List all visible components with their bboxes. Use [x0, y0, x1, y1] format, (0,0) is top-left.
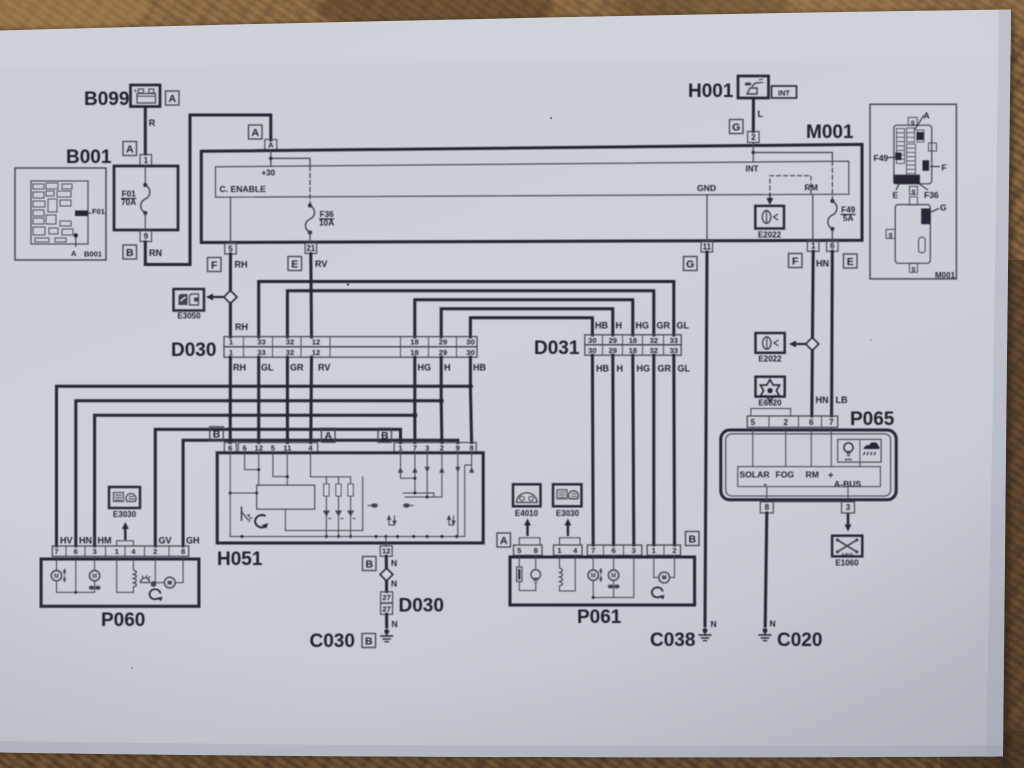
pin 8 of P065	[760, 502, 773, 513]
svg-text:10A: 10A	[319, 219, 334, 228]
wire label RH	[235, 260, 248, 270]
svg-text:B: B	[365, 558, 373, 570]
module M001 label	[806, 122, 854, 143]
svg-text:F: F	[792, 255, 799, 267]
connector A on M001	[265, 140, 277, 151]
svg-text:B: B	[365, 635, 373, 647]
ground C030	[380, 629, 393, 642]
H051 wiper switch symbol	[242, 507, 269, 529]
pin 27 upper	[381, 592, 393, 603]
M001 detail caption	[935, 271, 956, 280]
wire GL D031 to P061 pin 2	[672, 355, 676, 545]
label F49 in detail	[874, 153, 896, 163]
label FOG	[776, 470, 795, 480]
label minus	[764, 480, 767, 491]
switch H001 label	[688, 81, 734, 102]
svg-text:E1060: E1060	[835, 559, 859, 568]
ground C020 label	[777, 630, 822, 651]
wire label HV	[60, 536, 73, 546]
svg-text:3: 3	[425, 443, 429, 452]
fuse F36 10A	[306, 204, 315, 242]
node +30 junction	[269, 151, 273, 167]
wire A-BUS to pin 3	[847, 487, 849, 502]
svg-text:N: N	[392, 619, 398, 629]
H051 control unit box	[257, 485, 315, 509]
M001 detail tab g top	[908, 117, 917, 126]
svg-text:29: 29	[609, 336, 617, 345]
label INT inside M001	[746, 165, 759, 174]
svg-text:N: N	[391, 579, 397, 589]
wire RV pin21 to D030	[309, 254, 313, 337]
B001 detail label	[66, 147, 112, 168]
pin 2 of M001	[748, 132, 760, 143]
arrow P065 pin3 to E1060	[845, 513, 852, 532]
module P060 label	[101, 610, 145, 631]
P061 motor 6-3	[608, 555, 634, 597]
wire GV H051 pin 1 to P060	[155, 429, 400, 546]
node diamond on N wire	[380, 568, 392, 580]
svg-text:M001: M001	[806, 122, 854, 143]
svg-text:70A: 70A	[121, 198, 136, 207]
connector key B below B001	[123, 245, 137, 259]
connector key B at P061	[686, 532, 700, 546]
svg-text:18: 18	[410, 338, 418, 347]
bracket E6020 to pins 5-2	[751, 409, 791, 416]
svg-text:M001: M001	[935, 271, 956, 280]
M001 detail tab g bottom	[910, 186, 918, 195]
svg-text:F: F	[942, 163, 947, 173]
svg-text:6: 6	[611, 546, 615, 555]
icon E3050 power window	[174, 289, 205, 311]
fuse F01 70A symbol	[141, 166, 150, 230]
svg-text:GND: GND	[697, 183, 716, 193]
connector key F below pin 5	[208, 258, 222, 272]
svg-text:27: 27	[382, 593, 390, 602]
pin 9 of B001	[140, 231, 152, 242]
svg-text:30: 30	[588, 336, 596, 345]
svg-text:GR: GR	[658, 364, 672, 374]
icon E4010 gauge	[513, 484, 541, 506]
P060 relay coil	[117, 556, 137, 592]
wire HB to P060 and H051 pin 8	[57, 357, 474, 546]
P065 bottom pin link	[761, 501, 854, 503]
fuse F01 value label	[121, 189, 136, 207]
svg-text:RH: RH	[233, 363, 246, 373]
svg-text:M: M	[591, 573, 596, 579]
fuse F36 value label	[319, 210, 334, 228]
P060 washer motor HM	[89, 556, 101, 592]
icon E2022 caption	[758, 231, 782, 240]
wire label N 2	[391, 579, 397, 589]
M001 detail lower connector	[895, 205, 930, 264]
arrow P060 to E3030	[122, 522, 129, 540]
connector key B at C030	[362, 634, 376, 648]
icon E3050 caption	[177, 312, 201, 321]
M001 detail lower tab g left	[886, 229, 895, 238]
dashed feed through to F49	[831, 161, 833, 199]
svg-text:GR: GR	[657, 321, 671, 331]
svg-text:2: 2	[672, 546, 676, 555]
wire label L	[758, 109, 764, 119]
wire label HM	[98, 536, 112, 546]
svg-text:8: 8	[534, 546, 538, 555]
wire H D031 to P061 pin 6	[611, 355, 615, 545]
module P065 label	[850, 409, 895, 430]
svg-text:C. ENABLE: C. ENABLE	[220, 184, 267, 194]
wire label GV	[159, 536, 172, 546]
pin 1 of B001	[140, 155, 152, 166]
wire L from H001	[752, 99, 755, 132]
svg-text:HG: HG	[636, 321, 650, 331]
svg-text:E2022: E2022	[758, 231, 782, 240]
svg-text:N: N	[391, 558, 397, 568]
P061 pin row 1-2	[647, 545, 680, 555]
svg-text:GV: GV	[159, 536, 172, 546]
P061 lamp icon	[531, 555, 541, 590]
svg-text:SOLAR: SOLAR	[740, 470, 771, 480]
wire INT from pin 2	[752, 143, 756, 163]
pin A pointer in B001 detail	[71, 233, 78, 258]
wire GR bus	[287, 291, 653, 337]
bracket P061 pins 1-4	[560, 538, 581, 545]
svg-text:HV: HV	[60, 536, 73, 546]
M001 detail tab g right	[929, 143, 937, 151]
wire H051 to C030	[385, 556, 388, 591]
svg-text:GL: GL	[261, 363, 274, 373]
arrow to E2022	[789, 341, 806, 348]
connector key B above H051 right	[378, 428, 392, 442]
wire INT branch to F49	[753, 153, 832, 162]
wire label LB	[836, 395, 848, 405]
pin 11 of M001	[701, 241, 713, 252]
wire 27 to ground	[385, 614, 388, 627]
wire label RH 2	[235, 322, 248, 332]
D031 wire labels	[595, 321, 691, 374]
label A in detail	[914, 111, 930, 132]
dashed RM tap to E2022	[767, 176, 812, 205]
svg-text:E: E	[291, 258, 298, 270]
svg-text:E3030: E3030	[556, 509, 580, 518]
svg-text:H051: H051	[217, 549, 263, 570]
connector key B at pin 12	[363, 557, 377, 571]
wire HB D031 to P061 pin 7	[591, 355, 595, 545]
svg-text:3: 3	[92, 547, 96, 556]
wire label HN	[79, 536, 92, 546]
wire C.ENABLE output to pin 5	[230, 197, 232, 242]
svg-text:P060: P060	[101, 610, 145, 631]
svg-text:29: 29	[439, 338, 447, 347]
svg-text:+: +	[134, 89, 137, 95]
svg-text:A: A	[324, 430, 332, 442]
svg-text:A-BUS: A-BUS	[842, 552, 854, 556]
label RM inside M001	[805, 182, 818, 192]
wire label GH	[186, 536, 200, 546]
icon E3030 caption	[113, 510, 137, 519]
wire label HN upper	[816, 259, 829, 269]
svg-text:12: 12	[382, 547, 390, 556]
node diamond on HN wire	[806, 338, 819, 351]
svg-text:12: 12	[312, 338, 320, 347]
P061 motor 7	[588, 555, 614, 599]
H051 lamp driver columns	[285, 477, 362, 538]
icon E4010 caption	[515, 509, 539, 518]
H051 pin row left	[238, 443, 317, 453]
P065 pin row	[747, 416, 838, 427]
svg-text:8: 8	[181, 547, 185, 556]
svg-text:g: g	[912, 266, 916, 272]
label A-BUS	[834, 479, 861, 489]
svg-text:C020: C020	[777, 630, 822, 651]
label C. ENABLE	[220, 184, 267, 194]
wire minus P065 to C020	[765, 513, 767, 626]
svg-text:M: M	[54, 574, 59, 580]
svg-text:G: G	[940, 203, 947, 213]
connector key E below pin 21	[288, 257, 302, 271]
svg-text:12: 12	[254, 443, 262, 452]
svg-text:H: H	[444, 363, 451, 373]
svg-text:H001: H001	[688, 81, 734, 102]
M001 detail upper connector	[893, 125, 931, 184]
wire LB from M001 pin 6 to P065	[830, 251, 834, 416]
svg-text:A: A	[500, 535, 508, 547]
svg-text:GR: GR	[290, 363, 304, 373]
svg-text:7: 7	[591, 546, 595, 555]
P061 pin row 1-4	[554, 545, 583, 555]
svg-text:HN: HN	[79, 536, 92, 546]
H051 rail to pin 12	[385, 537, 387, 547]
svg-text:1: 1	[144, 156, 149, 165]
svg-text:8: 8	[765, 503, 770, 512]
pin 12 below H051	[380, 546, 392, 557]
connector key A above B001	[123, 142, 137, 156]
connector D030 label 2	[399, 596, 444, 617]
wire HG D031 to P061 pin 3	[633, 355, 634, 545]
svg-text:P061: P061	[577, 607, 622, 628]
arrow P061 to E4010	[524, 519, 531, 537]
bracket P060 pins 1-4	[117, 541, 134, 546]
svg-text:P065: P065	[850, 409, 895, 430]
svg-text:E6020: E6020	[758, 399, 782, 408]
wire RM to pin 1	[812, 195, 814, 241]
connector D030 strip	[224, 337, 477, 358]
svg-text:E: E	[893, 190, 899, 200]
svg-text:HG: HG	[418, 363, 432, 373]
svg-text:HG: HG	[637, 364, 651, 374]
connector D030 pin numbers	[229, 338, 475, 358]
svg-text:30: 30	[466, 338, 474, 347]
svg-text:5: 5	[751, 418, 756, 427]
P065 icon box tick	[859, 462, 861, 467]
arrow to E3050	[206, 294, 224, 301]
svg-text:33: 33	[670, 336, 678, 345]
icon E6020 sensor	[756, 377, 785, 402]
switch H001 icon	[738, 75, 769, 99]
wire GR D030 to H051 pin 11	[286, 357, 289, 442]
H051 internal pin wires left	[229, 453, 327, 537]
module P065 box	[721, 430, 896, 500]
wire RH D030 to H051 pin 6	[229, 357, 232, 442]
svg-text:32: 32	[650, 336, 658, 345]
svg-text:R: R	[149, 118, 156, 128]
svg-text:D030: D030	[399, 596, 444, 617]
svg-text:LB: LB	[836, 395, 848, 405]
svg-text:5A: 5A	[843, 214, 854, 223]
svg-text:F36: F36	[924, 190, 939, 200]
wire RV D030 to H051 pin 4	[309, 357, 313, 442]
wire GL D030 to H051 pin 12	[257, 357, 260, 442]
wire pin6 to RM	[810, 427, 812, 466]
icon E2022 inside M001	[755, 206, 784, 229]
svg-text:B: B	[126, 247, 134, 259]
P065 rain sensor icon	[864, 442, 880, 455]
H051 pin row 6	[224, 443, 236, 453]
wire GR D031 to P061 pin 1	[652, 355, 655, 545]
P065 icon cell box	[838, 439, 881, 462]
fusebox B001 detail drawing	[15, 168, 106, 260]
pin 21 of M001	[305, 243, 317, 254]
connector key F below pin 1	[789, 254, 803, 268]
battery B099	[131, 85, 161, 107]
P060 wiper motor HV	[51, 556, 94, 594]
wire pin2 to FOG	[785, 427, 787, 466]
P060 rear motor GV GH	[155, 556, 183, 588]
P060 washer jet icon	[141, 575, 157, 587]
label GND inside M001	[697, 183, 716, 193]
svg-text:INT: INT	[778, 88, 790, 97]
wire RH diamond to D030	[229, 303, 232, 337]
svg-text:HN: HN	[816, 259, 829, 269]
svg-text:27: 27	[382, 605, 390, 614]
svg-text:F: F	[211, 259, 218, 271]
svg-text:HM: HM	[98, 536, 112, 546]
svg-text:A: A	[126, 143, 134, 155]
svg-text:G: G	[686, 258, 694, 270]
P061 wiper arrow symbol	[652, 587, 665, 599]
svg-text:GL: GL	[677, 321, 690, 331]
wire label RV	[315, 259, 327, 269]
module H051 label	[217, 549, 263, 570]
svg-text:F49: F49	[841, 205, 856, 214]
bracket P061 pins 5-8	[519, 538, 540, 545]
svg-text:B: B	[213, 429, 221, 441]
svg-text:F36: F36	[320, 210, 335, 219]
svg-text:3: 3	[632, 546, 636, 555]
svg-text:N: N	[711, 619, 717, 629]
wire RN from B001 to M001 connector A	[145, 115, 270, 265]
D030 wire labels below	[233, 363, 486, 373]
svg-text:HB: HB	[473, 363, 486, 373]
wire label R	[149, 118, 156, 128]
icon E3030 instrument cluster	[109, 487, 140, 508]
svg-text:RN: RN	[149, 248, 162, 258]
svg-text:F01: F01	[122, 189, 137, 198]
icon E1060 A-BUS node	[832, 536, 862, 557]
H051 output driver symbols	[368, 453, 475, 537]
svg-text:D030: D030	[171, 340, 216, 361]
M001 detail lower tab g top	[910, 197, 918, 205]
ground C020	[759, 628, 772, 641]
connector D031 label	[534, 338, 580, 359]
svg-text:2: 2	[783, 418, 788, 427]
svg-text:auto: auto	[845, 458, 852, 462]
svg-text:N: N	[770, 619, 776, 629]
svg-text:B: B	[688, 533, 696, 545]
node diamond on RH wire	[224, 291, 237, 304]
svg-text:B: B	[381, 430, 389, 442]
label plus	[828, 470, 834, 481]
connector key A above H051	[322, 428, 336, 442]
fuse F49 5A	[828, 199, 837, 240]
svg-text:RV: RV	[315, 259, 327, 269]
ground C038 label	[650, 630, 695, 651]
svg-text:g: g	[912, 189, 916, 195]
P061 washer motor 1-2	[654, 555, 675, 582]
svg-text:RH: RH	[235, 260, 248, 270]
wire GH H051 pin 9 to P060	[183, 440, 458, 546]
wire N from M001 pin 11 to C038	[705, 252, 707, 626]
svg-text:C030: C030	[310, 631, 355, 652]
svg-text:G: G	[732, 121, 740, 133]
wire label N 1	[391, 558, 397, 568]
module P061 label	[577, 607, 622, 628]
wire GND to pin 11	[706, 195, 708, 242]
svg-text:6: 6	[809, 418, 814, 427]
wire label RN	[149, 248, 162, 258]
ground C030 label	[310, 631, 355, 652]
svg-text:A: A	[71, 249, 77, 258]
wire RH pin5 to diamond	[229, 254, 232, 291]
svg-text:A: A	[168, 93, 176, 105]
svg-text:2: 2	[751, 133, 756, 142]
icon E2022 rheostat	[756, 333, 785, 353]
wire HB bus	[470, 318, 592, 337]
P065 bulb icon	[844, 443, 853, 462]
svg-text:12: 12	[312, 348, 320, 357]
svg-text:RH: RH	[235, 322, 248, 332]
wire label N 3	[392, 619, 398, 629]
label RM	[806, 470, 819, 480]
F01 pointer label in B001 detail	[88, 207, 105, 216]
wire +30 branch to F36	[271, 158, 310, 166]
P060 wiper arrow symbol	[150, 589, 163, 601]
label +30	[262, 168, 276, 177]
wire H to P060 and H051 pin 2	[76, 357, 444, 546]
svg-text:g: g	[889, 232, 893, 238]
svg-text:21: 21	[306, 244, 315, 253]
H051 pin row right	[394, 443, 476, 453]
module M001 inner function box	[216, 161, 849, 197]
svg-text:11: 11	[283, 443, 292, 452]
svg-text:32: 32	[286, 338, 294, 347]
pin 1 of M001 bottom	[807, 240, 819, 251]
module H051 box	[217, 453, 483, 543]
pin 5 of M001	[225, 243, 237, 254]
svg-text:H: H	[616, 321, 623, 331]
M001 connector detail box	[870, 104, 956, 279]
pin 27 lower	[381, 603, 393, 614]
fusebox B001 outer box	[114, 166, 178, 230]
connector key A at P061	[497, 533, 511, 547]
connector key G at H001	[730, 120, 744, 134]
svg-text:M: M	[92, 574, 97, 580]
connector D031 pin numbers	[588, 336, 678, 355]
P061 lamp cartridge	[517, 555, 536, 590]
svg-text:9: 9	[144, 232, 149, 241]
svg-text:18: 18	[629, 336, 637, 345]
svg-text:F49: F49	[874, 153, 889, 163]
P060 pin row	[52, 546, 188, 556]
B001 detail caption	[84, 250, 102, 259]
